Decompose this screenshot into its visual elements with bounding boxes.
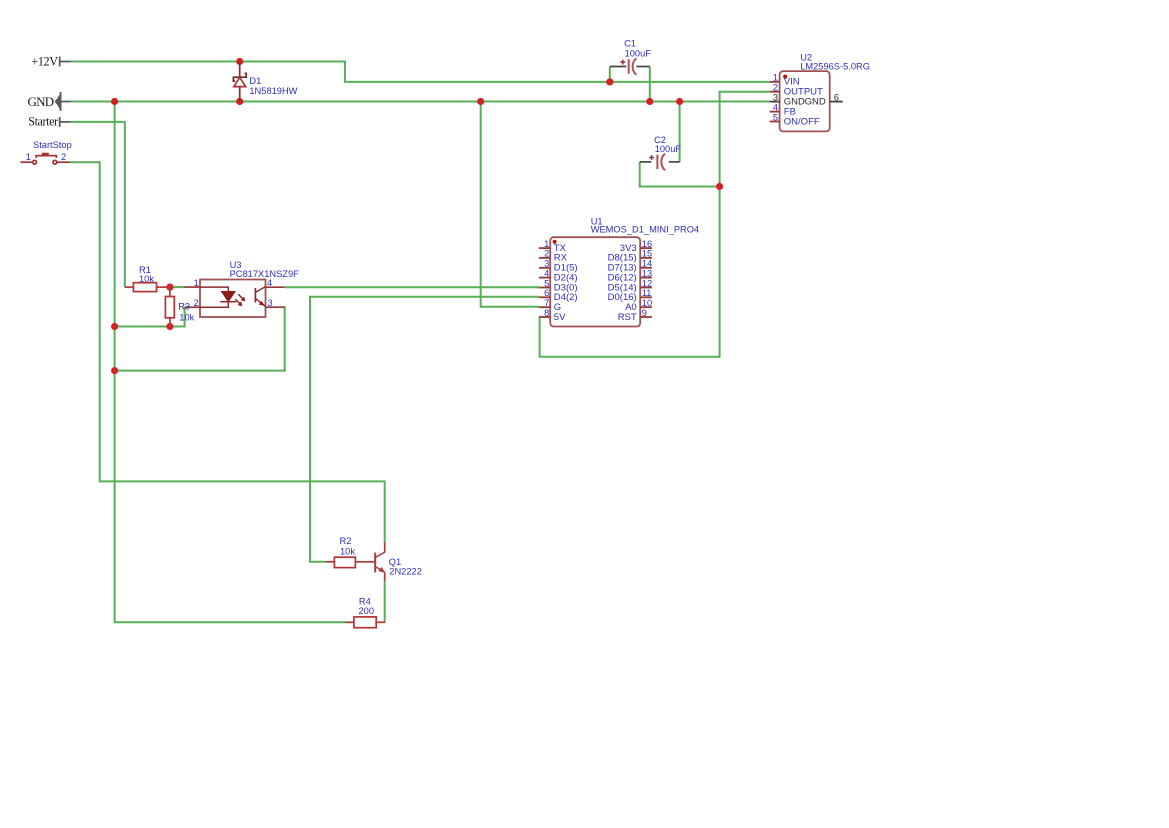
svg-text:1: 1 bbox=[26, 152, 31, 162]
wire C2 left drop bbox=[639, 162, 641, 187]
wire StartStop to collector horizontal bbox=[99, 480, 385, 482]
svg-text:2: 2 bbox=[773, 83, 778, 93]
wire Starter vertical to R1 bbox=[124, 121, 126, 287]
wire G row bbox=[481, 306, 539, 308]
svg-text:5: 5 bbox=[773, 112, 778, 122]
svg-text:13: 13 bbox=[642, 268, 652, 278]
svg-text:15: 15 bbox=[642, 249, 652, 259]
svg-text:1N5819HW: 1N5819HW bbox=[249, 86, 297, 96]
wire +12V rail top bbox=[71, 61, 345, 63]
svg-text:7: 7 bbox=[544, 298, 549, 308]
node GND-leftvert bbox=[111, 98, 118, 105]
svg-text:3: 3 bbox=[544, 259, 549, 269]
U2 pin 2 stub bbox=[770, 91, 780, 93]
node D1 top bbox=[236, 58, 243, 65]
U2 orientation dot bbox=[783, 75, 787, 79]
svg-text:D1: D1 bbox=[249, 76, 261, 86]
wire D4 row bbox=[310, 296, 539, 298]
svg-text:GND: GND bbox=[28, 94, 55, 109]
U1 pin 2 stub bbox=[539, 257, 550, 259]
switch contact 1 bbox=[33, 160, 37, 164]
switch plunger bbox=[42, 153, 49, 156]
diode D1 1N5819HW bbox=[233, 62, 246, 102]
node GND vert y326 bbox=[111, 323, 118, 330]
svg-text:1: 1 bbox=[544, 239, 549, 249]
wire U3 pin3 row to GND vertical bbox=[115, 370, 286, 372]
U3 pin 4 stub bbox=[266, 286, 285, 288]
U1 pin 5 stub bbox=[539, 287, 550, 289]
wire GND bottom to R4 bbox=[114, 621, 346, 623]
wire emitter down to R4 bbox=[384, 581, 386, 622]
svg-text:16: 16 bbox=[642, 239, 652, 249]
U1 pin 9 stub bbox=[640, 316, 652, 318]
C1 right stub bbox=[636, 66, 649, 68]
U1 pin 7 stub bbox=[539, 306, 550, 308]
U1 pin 8 stub bbox=[539, 316, 550, 318]
node R1-R3-U3pin1 bbox=[166, 284, 173, 291]
svg-text:200: 200 bbox=[359, 606, 375, 616]
svg-text:3: 3 bbox=[773, 92, 778, 102]
wire C1 left drop bbox=[609, 67, 611, 82]
U3 pin 2 stub bbox=[185, 306, 200, 308]
Q1 emitter diagonal bbox=[375, 567, 385, 573]
svg-text:5V: 5V bbox=[554, 312, 566, 323]
C2 curved plate bbox=[661, 154, 665, 171]
C1 curved plate bbox=[633, 58, 637, 75]
svg-text:2: 2 bbox=[194, 298, 199, 308]
U2 pin 3 stub bbox=[770, 101, 780, 103]
port Starter bbox=[60, 117, 71, 127]
svg-text:10k: 10k bbox=[340, 547, 355, 557]
svg-text:StartStop: StartStop bbox=[33, 140, 72, 150]
Q1 base bar bbox=[374, 553, 376, 573]
capacitor C2 100uF bbox=[640, 154, 680, 171]
svg-text:10k: 10k bbox=[139, 274, 154, 284]
U3 LED cathode bar bbox=[220, 301, 236, 303]
U1 body bbox=[550, 237, 640, 326]
wire D4 to R2 bbox=[309, 561, 326, 563]
node C2-OUTPUT bbox=[716, 183, 723, 190]
Q1 collector diagonal bbox=[375, 552, 385, 557]
capacitor C1 100uF bbox=[610, 58, 650, 75]
svg-text:R4: R4 bbox=[359, 597, 371, 607]
wire +12V to VIN bbox=[344, 81, 770, 83]
transistor Q1 2N2222 bbox=[375, 543, 385, 582]
D1 cathode lead bbox=[239, 62, 241, 78]
U2 pin 1 stub bbox=[770, 81, 780, 83]
optocoupler U3 PC817X1NSZ9F bbox=[185, 280, 285, 318]
U1 pin 10 stub bbox=[640, 306, 652, 308]
U1 pin 16 stub bbox=[640, 247, 652, 249]
wire GND rail bbox=[71, 101, 770, 103]
wire StartStop horizontal bbox=[70, 161, 100, 163]
U2 pin 4 stub bbox=[770, 111, 780, 113]
svg-text:11: 11 bbox=[642, 288, 652, 298]
U3 pin 3 stub bbox=[266, 306, 285, 308]
svg-text:ON/OFF: ON/OFF bbox=[784, 116, 820, 127]
U3 pin 1 stub bbox=[185, 286, 200, 288]
svg-text:RST: RST bbox=[618, 312, 637, 323]
U1 orientation dot bbox=[553, 240, 557, 244]
IC U1 WEMOS_D1_MINI_PRO4 bbox=[539, 237, 652, 326]
switch pin 1 lead bbox=[20, 161, 32, 163]
node R3 bottom bbox=[166, 323, 173, 330]
D1 triangle bbox=[234, 77, 246, 86]
U2 body bbox=[780, 71, 830, 131]
U1 pin 1 stub bbox=[539, 247, 550, 249]
svg-text:PC817X1NSZ9F: PC817X1NSZ9F bbox=[230, 269, 300, 279]
wire R3 bottom row bbox=[115, 326, 185, 328]
svg-text:10k: 10k bbox=[179, 312, 194, 322]
U3 body bbox=[200, 280, 266, 318]
U3 light arrow 2 bbox=[235, 299, 240, 304]
svg-text:GND: GND bbox=[805, 97, 826, 108]
U3 phototransistor base bar bbox=[254, 288, 256, 303]
U2 pin 5 stub bbox=[770, 121, 780, 123]
svg-text:6: 6 bbox=[834, 92, 839, 102]
resistor R1 10k bbox=[125, 283, 170, 292]
svg-text:100uF: 100uF bbox=[625, 48, 652, 58]
U1 pin 4 stub bbox=[539, 277, 550, 279]
wire 5V bottom run bbox=[539, 356, 720, 358]
C1 straight plate bbox=[628, 59, 630, 73]
node C2 right on GND rail bbox=[676, 98, 683, 105]
svg-text:100uF: 100uF bbox=[655, 144, 682, 154]
U1 pin 13 stub bbox=[640, 277, 652, 279]
switch StartStop bbox=[20, 153, 70, 164]
svg-text:Starter: Starter bbox=[28, 115, 58, 129]
wire +12V step down bbox=[344, 61, 346, 82]
C1 plus bbox=[620, 60, 625, 65]
wire R1 out to U3 pin1 bbox=[170, 286, 185, 288]
C2 left stub bbox=[640, 161, 652, 163]
wire C2 right up to GND bbox=[679, 102, 681, 162]
C2 right stub bbox=[669, 161, 680, 163]
C2 straight plate bbox=[656, 155, 658, 169]
svg-text:2: 2 bbox=[544, 249, 549, 259]
svg-text:3: 3 bbox=[268, 298, 273, 308]
resistor R3 10k bbox=[165, 287, 174, 326]
wire collector drop bbox=[384, 480, 386, 542]
wire 5V drop bbox=[539, 317, 541, 357]
resistor R2 10k bbox=[326, 557, 375, 567]
svg-text:R3: R3 bbox=[178, 302, 190, 312]
wire up to U3 pin2 bbox=[184, 307, 186, 327]
U1 pin 12 stub bbox=[640, 287, 652, 289]
Q1 emitter lead bbox=[384, 572, 386, 581]
U3 emitter arrow bbox=[259, 301, 265, 306]
wire GND left vertical bbox=[114, 102, 116, 623]
wire D4 vertical down bbox=[309, 296, 311, 562]
svg-text:6: 6 bbox=[544, 288, 549, 298]
svg-text:4: 4 bbox=[773, 102, 778, 112]
svg-text:LM2596S-5.0RG: LM2596S-5.0RG bbox=[800, 62, 870, 72]
U3 LED cathode route bbox=[200, 302, 228, 307]
svg-text:4: 4 bbox=[267, 278, 272, 288]
switch actuator bar bbox=[36, 156, 56, 158]
wire C2 left bottom run bbox=[639, 186, 720, 188]
U1 pin 6 stub bbox=[539, 296, 550, 298]
node GND vert y370 bbox=[111, 367, 118, 374]
wire U3 pin3 vertical bbox=[284, 306, 286, 370]
port +12V bbox=[60, 57, 71, 67]
svg-text:10: 10 bbox=[642, 298, 652, 308]
wire OUTPUT vertical bbox=[719, 92, 721, 358]
svg-text:C1: C1 bbox=[624, 38, 636, 48]
svg-text:R2: R2 bbox=[340, 536, 352, 546]
svg-text:1: 1 bbox=[773, 73, 778, 83]
U1 pin 3 stub bbox=[539, 267, 550, 269]
C1 left stub bbox=[610, 66, 627, 68]
U1 pin 11 stub bbox=[640, 296, 652, 298]
svg-text:2: 2 bbox=[61, 152, 66, 162]
U2 pin 6 stub bbox=[830, 101, 843, 103]
D1 schottky bar bbox=[233, 73, 246, 81]
U3 LED anode route bbox=[200, 287, 228, 291]
wire OUTPUT stub row bbox=[719, 91, 770, 93]
wire Starter horizontal bbox=[71, 121, 125, 123]
svg-text:12: 12 bbox=[642, 278, 652, 288]
node C1 left on +12V bbox=[606, 78, 613, 85]
IC U2 LM2596S-5.0RG bbox=[770, 71, 843, 131]
resistor R4 200 bbox=[345, 617, 385, 628]
U3 collector bbox=[255, 287, 265, 293]
port GND bbox=[55, 92, 71, 111]
node C1 right on GND rail bbox=[646, 98, 653, 105]
wire U3 pin4 to U1 D3 bbox=[285, 286, 539, 288]
svg-text:8: 8 bbox=[544, 308, 549, 318]
D1 anode lead bbox=[239, 87, 241, 102]
U3 emitter bbox=[255, 298, 265, 307]
wires group bbox=[70, 61, 770, 623]
wire G vertical to GND rail bbox=[480, 102, 482, 308]
U1 pin 14 stub bbox=[640, 267, 652, 269]
svg-text:5: 5 bbox=[544, 278, 549, 288]
svg-text:1: 1 bbox=[194, 278, 199, 288]
svg-text:2N2222: 2N2222 bbox=[389, 566, 422, 576]
switch contact 2 bbox=[53, 160, 57, 164]
C2 plus bbox=[649, 155, 654, 160]
svg-text:WEMOS_D1_MINI_PRO4: WEMOS_D1_MINI_PRO4 bbox=[591, 224, 700, 234]
junction dots bbox=[111, 58, 723, 374]
node G net on GND rail bbox=[477, 98, 484, 105]
svg-text:+12V: +12V bbox=[31, 54, 58, 68]
wire StartStop vertical down bbox=[99, 161, 101, 481]
wire C1 right drop bbox=[649, 67, 651, 102]
svg-text:4: 4 bbox=[544, 268, 549, 278]
node D1 bottom bbox=[236, 98, 243, 105]
U1 pin 15 stub bbox=[640, 257, 652, 259]
U3 LED triangle bbox=[222, 292, 236, 302]
Q1 collector lead bbox=[384, 543, 386, 553]
U3 light arrow 1 bbox=[238, 294, 243, 299]
Q1 emitter arrow bbox=[379, 567, 385, 573]
svg-text:14: 14 bbox=[642, 259, 652, 269]
switch pin 2 lead bbox=[57, 161, 70, 163]
svg-text:9: 9 bbox=[642, 308, 647, 318]
